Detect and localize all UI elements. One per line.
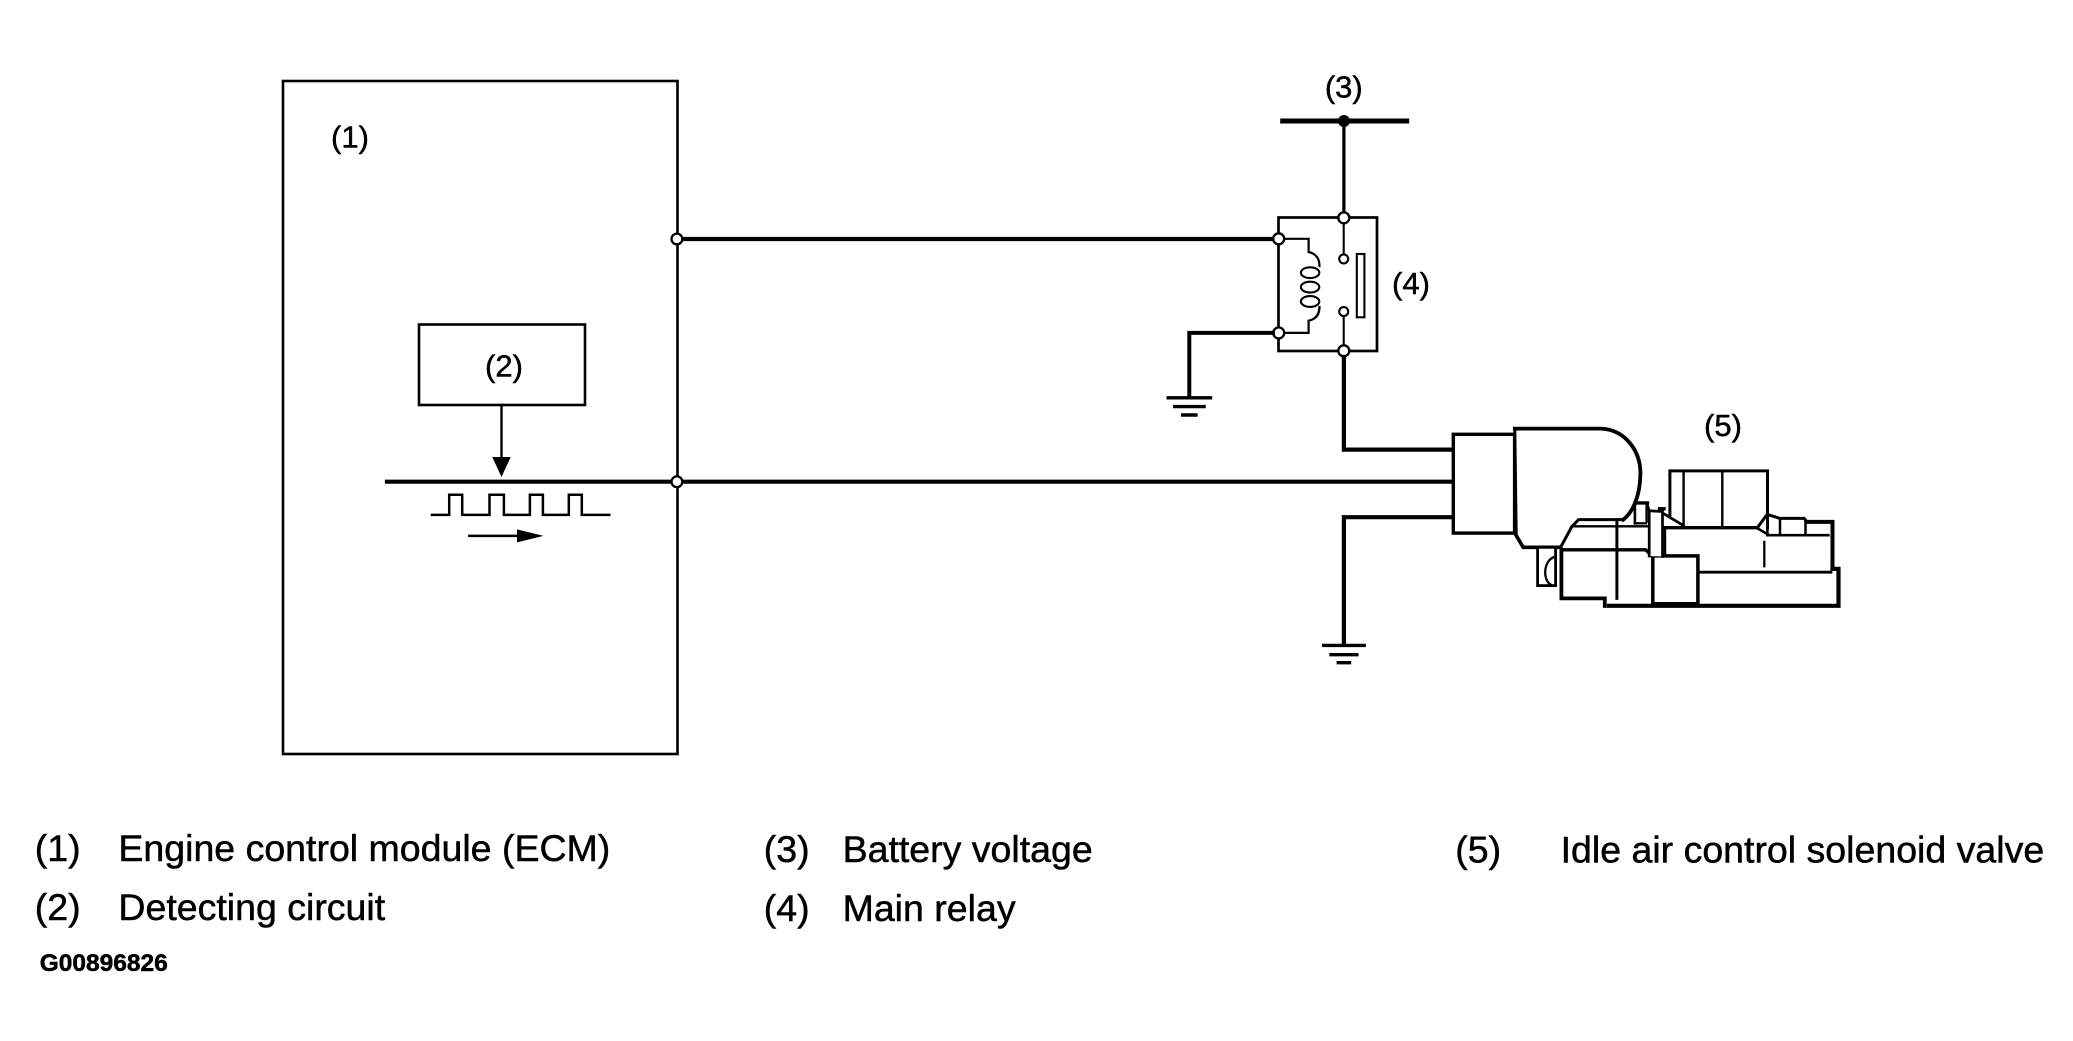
valve boss bottom edge thick	[1665, 526, 1758, 529]
relay coil leads	[1279, 239, 1320, 266]
relay body	[1279, 218, 1378, 352]
valve narrow strip	[1649, 511, 1662, 557]
relay terminal bottom	[1338, 345, 1349, 356]
valve right box divider	[1804, 522, 1807, 535]
arrow from detecting circuit to signal line	[492, 405, 510, 477]
valve right strip vertical	[1779, 518, 1782, 535]
valve crease line	[1763, 542, 1765, 566]
svg-text:(2): (2)	[485, 349, 523, 384]
wire relay coil to ground	[1189, 333, 1273, 396]
valve boss block	[1670, 471, 1768, 528]
valve connector block	[1453, 434, 1514, 533]
ECM box U1 (engine control module)	[283, 81, 678, 754]
svg-text:(3): (3)	[1325, 70, 1363, 105]
valve front block	[1653, 556, 1698, 604]
valve boss right lower edge	[1766, 514, 1769, 535]
valve main block left edge	[1664, 528, 1667, 557]
valve lower right block top	[1758, 529, 1829, 536]
valve small cylinder arc	[1545, 557, 1555, 585]
idle air control solenoid valve (5)	[1453, 429, 1838, 606]
main relay (4)	[1273, 212, 1377, 356]
relay contact link lower	[1343, 316, 1345, 351]
relay terminal left lower	[1273, 327, 1284, 338]
relay terminal left upper	[1273, 233, 1284, 244]
valve collar top thick	[1635, 501, 1648, 504]
wire ECM to relay coil	[677, 237, 1279, 241]
pulse waveform	[432, 495, 609, 515]
valve mid vertical line	[1615, 521, 1618, 599]
valve solenoid body (D-shape)	[1515, 429, 1641, 548]
signal direction arrow	[469, 529, 543, 542]
valve right block top	[1757, 514, 1807, 527]
valve ledge diagonal	[1663, 513, 1683, 525]
valve strip top joint	[1647, 504, 1649, 511]
battery voltage symbol (3)	[1280, 115, 1409, 127]
relay contact link upper	[1343, 218, 1345, 254]
relay coil loops	[1301, 267, 1319, 278]
wire relay to solenoid valve	[1344, 357, 1454, 450]
valve body bottom edge thick	[1516, 536, 1560, 548]
ground (relay coil)	[1167, 398, 1213, 415]
relay terminal top	[1338, 212, 1349, 223]
valve small cylinder box	[1538, 547, 1556, 585]
ECM pin terminal (signal)	[672, 476, 683, 487]
signal line inside ECM	[387, 480, 677, 484]
valve right box top thick	[1807, 522, 1833, 569]
relay contact point upper	[1339, 254, 1348, 263]
wire battery to relay	[1342, 121, 1345, 213]
valve boss facet lines	[1682, 471, 1684, 528]
relay contact point lower	[1339, 307, 1348, 316]
valve base plate bottom thick	[1609, 569, 1839, 606]
valve strip right ledge	[1660, 507, 1664, 510]
wire ECM to solenoid (signal)	[677, 480, 1454, 484]
detecting circuit box (2)	[419, 325, 585, 406]
ground (solenoid valve)	[1322, 645, 1366, 662]
relay contact bar	[1357, 254, 1365, 317]
valve neck top line	[1561, 550, 1653, 557]
valve collar bottom line	[1635, 522, 1646, 524]
svg-text:(5): (5)	[1704, 408, 1742, 443]
ECM pin terminal (to relay)	[672, 234, 683, 245]
valve body top edge thick	[1515, 429, 1641, 520]
svg-text:(4): (4)	[1392, 266, 1430, 301]
valve lower-middle block	[1561, 550, 1604, 606]
valve base plate top edge	[1699, 571, 1831, 574]
valve collar verticals	[1634, 505, 1637, 524]
valve neck front top edge	[1572, 525, 1647, 527]
wire solenoid valve to ground	[1344, 517, 1454, 643]
svg-text:(1): (1)	[331, 120, 369, 155]
